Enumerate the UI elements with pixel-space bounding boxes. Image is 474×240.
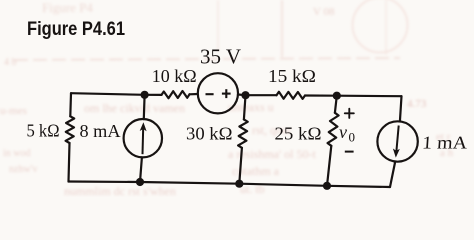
current source I 1mA circle	[377, 121, 417, 161]
svg-text:v: v	[339, 122, 347, 142]
resistor R 5k zigzag	[66, 116, 75, 143]
current source I 8mA circle	[124, 119, 162, 157]
resistor R 25k zigzag	[328, 113, 339, 146]
wire right branch upper	[400, 96, 402, 121]
voltage source V 35V circle	[198, 73, 238, 113]
wire 25k branch lower	[327, 146, 331, 186]
label minus sign of v0	[345, 151, 354, 153]
1mA source arrow (down)	[393, 126, 400, 158]
svg-text:V 08: V 08	[313, 6, 335, 18]
svg-text:5 kΩ: 5 kΩ	[27, 121, 60, 141]
wire right branch lower	[390, 162, 395, 187]
wire top rail right segment to corner	[337, 95, 402, 98]
node dot top of 25k	[333, 92, 341, 100]
node dot bottom of 30k	[235, 180, 243, 188]
svg-text:u-mes: u-mes	[0, 105, 27, 117]
wire 35V source to node dot	[238, 93, 246, 96]
svg-text:Figure P4: Figure P4	[42, 0, 93, 15]
wire top rail left segment	[71, 93, 145, 95]
svg-text:10 kΩ: 10 kΩ	[152, 66, 197, 86]
8mA source arrow (up)	[140, 122, 147, 154]
resistor R 15k zigzag	[277, 92, 306, 99]
svg-text:8 mA: 8 mA	[80, 121, 121, 141]
bleed-through ghost artifacts	[0, 0, 454, 198]
node dot top of 8mA	[141, 91, 149, 99]
35V source plus sign	[222, 89, 231, 98]
svg-text:4.73: 4.73	[407, 98, 427, 110]
svg-text:30 kΩ: 30 kΩ	[186, 123, 233, 143]
svg-text:nzhw'v: nzhw'v	[9, 164, 37, 175]
wire 25k branch upper	[335, 96, 337, 113]
svg-text:in wod: in wod	[3, 148, 31, 159]
resistor R 10k zigzag	[162, 91, 190, 98]
label plus sign of v0	[345, 109, 354, 118]
wire 10k to 35V source	[190, 93, 198, 96]
resistor R 30k zigzag	[238, 119, 248, 147]
svg-text:Figure P4.61: Figure P4.61	[27, 19, 125, 40]
35V source minus sign	[206, 93, 214, 95]
node dot bottom of 8mA	[136, 178, 144, 186]
wire 15k to 25k node	[305, 94, 337, 96]
svg-text:1 mA: 1 mA	[422, 133, 468, 153]
svg-text:15 kΩ: 15 kΩ	[268, 66, 316, 86]
svg-text:om lhe cikvid vamen: om lhe cikvid vamen	[84, 101, 185, 115]
svg-text:35 V: 35 V	[200, 45, 241, 69]
svg-text:0: 0	[349, 130, 356, 145]
svg-text:nummlim dc rst s'when: nummlim dc rst s'when	[64, 184, 176, 197]
wire left branch upper	[69, 93, 72, 116]
wire top rail: 8mA dot to 10k resistor	[145, 94, 162, 96]
wire bottom rail	[69, 182, 391, 188]
wire 8mA branch upper	[143, 95, 146, 119]
svg-text:4 b: 4 b	[4, 57, 17, 68]
wire 30k branch lower	[239, 148, 242, 184]
wire 30k branch upper	[244, 95, 246, 119]
node dot bottom of 25k	[323, 182, 331, 190]
svg-text:25 kΩ: 25 kΩ	[275, 123, 322, 143]
wire 8mA branch lower	[140, 157, 142, 182]
wire left branch lower	[69, 143, 70, 182]
wire node to 15k	[246, 94, 277, 96]
node dot top of 30k	[241, 91, 249, 99]
